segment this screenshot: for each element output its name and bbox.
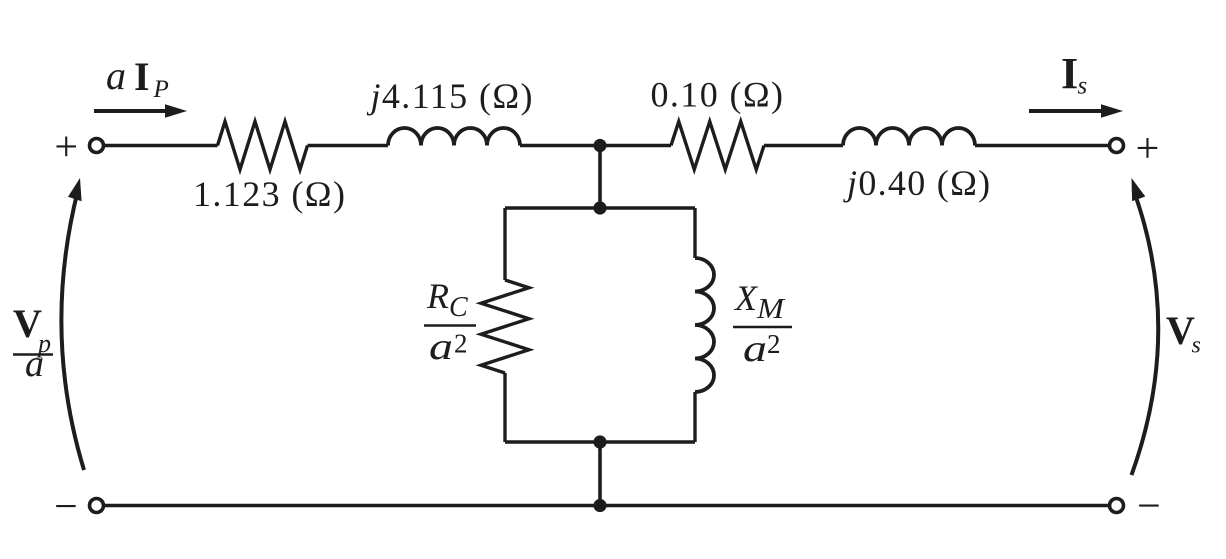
wire box left edge upper	[503, 208, 506, 280]
wire shunt drop to bottom rail	[598, 442, 602, 506]
wire R2 to L2	[764, 144, 843, 147]
node bottom junction	[593, 499, 606, 512]
wire shunt drop from top node	[598, 146, 602, 209]
terminal primary - (open circle, bottom left)	[90, 499, 104, 513]
current arrow Is	[1029, 109, 1104, 113]
svg-text:j0.40 (Ω): j0.40 (Ω)	[843, 163, 991, 203]
terminal secondary + (open circle, top right)	[1110, 139, 1124, 153]
svg-text:X: X	[733, 278, 759, 318]
resistor 1.123 ohm	[218, 122, 308, 170]
node shunt top	[593, 201, 606, 214]
svg-text:a: a	[743, 328, 767, 370]
wire L1 to R2 (through top node)	[520, 144, 671, 147]
wire top-left	[105, 144, 218, 147]
svg-text:a: a	[106, 53, 126, 98]
wire box right edge upper	[693, 208, 696, 258]
node shunt bottom	[593, 435, 606, 448]
wire box right edge lower	[693, 392, 696, 442]
wire L2 to secondary terminal	[975, 144, 1109, 147]
svg-text:a: a	[25, 343, 44, 385]
svg-text:+: +	[54, 124, 78, 170]
svg-text:s: s	[1078, 73, 1088, 100]
label Is	[1061, 49, 1087, 100]
terminal secondary - (open circle, bottom right)	[1110, 499, 1124, 513]
svg-text:C: C	[449, 292, 468, 323]
svg-text:1.123 (Ω): 1.123 (Ω)	[193, 174, 346, 214]
resistor RC/a^2	[481, 280, 529, 373]
label Vs	[1166, 308, 1201, 359]
node top junction	[593, 139, 606, 152]
svg-text:2: 2	[767, 329, 781, 359]
label Vp/a fraction	[13, 301, 53, 385]
svg-text:I: I	[1061, 49, 1078, 98]
resistor 0.10 ohm	[671, 122, 764, 170]
wire shunt box top edge	[505, 206, 695, 209]
inductor j4.115 ohm	[388, 128, 520, 145]
wire shunt box bottom edge	[505, 440, 695, 443]
svg-text:R: R	[426, 276, 449, 316]
svg-text:I: I	[134, 54, 150, 99]
svg-text:s: s	[1192, 333, 1201, 359]
svg-text:+: +	[1136, 126, 1160, 172]
voltage arrow Vs (right, curved)	[1132, 190, 1159, 475]
label a Ip	[106, 53, 169, 103]
svg-text:0.10 (Ω): 0.10 (Ω)	[651, 75, 785, 115]
svg-text:−: −	[54, 484, 78, 530]
voltage arrow Vp/a (left, curved)	[61, 190, 84, 470]
svg-text:−: −	[1137, 484, 1161, 530]
inductor j0.40 ohm	[843, 128, 975, 145]
label XM/a^2 fraction	[733, 278, 792, 370]
label RC/a^2 fraction	[424, 276, 476, 368]
svg-text:2: 2	[454, 329, 468, 359]
wire bottom rail	[105, 504, 1110, 507]
svg-text:j4.115 (Ω): j4.115 (Ω)	[367, 76, 534, 116]
svg-text:M: M	[756, 293, 786, 325]
wire between R1 and L1	[308, 144, 389, 147]
terminal primary + (open circle, top left)	[90, 139, 104, 153]
wire box left edge lower	[503, 373, 506, 442]
inductor XM/a^2	[695, 258, 714, 392]
current arrow a Ip	[94, 109, 168, 113]
svg-text:a: a	[429, 326, 453, 368]
svg-text:P: P	[153, 76, 169, 103]
